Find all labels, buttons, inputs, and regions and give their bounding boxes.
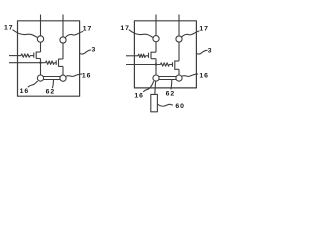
wire: Q2 drain up to pad 17b (right block) <box>178 42 180 61</box>
wire: Q2 drain up to pad 17b <box>62 43 64 59</box>
svg-text:16: 16 <box>134 93 144 100</box>
wire: node line (right block) <box>126 64 161 66</box>
leader: label 3 (left block) <box>80 50 91 54</box>
leader: label 16 right (left block) <box>66 74 82 76</box>
svg-text:17: 17 <box>199 26 209 33</box>
pad 16a (terminal circle, right block bottom left) <box>153 75 159 81</box>
leader: label 60 <box>157 104 173 106</box>
svg-text:16: 16 <box>199 73 209 80</box>
pad 17b (terminal circle, left block col 2) <box>60 37 66 43</box>
pad 16a (terminal circle, left block bottom left) <box>37 75 43 81</box>
resistor R1 (left block, gate of Q1) <box>21 54 30 57</box>
svg-text:17: 17 <box>4 24 14 31</box>
left IC package outline 3 <box>18 21 80 96</box>
transistor Q2 (right block) <box>173 60 180 70</box>
wire: Q1 source down to node <box>40 59 42 63</box>
wire: left stub to R1 (right block) <box>126 55 138 57</box>
wire: Q1 source down to node (right block) <box>155 59 157 65</box>
wire: Q2 source down to pad 16b <box>62 66 64 75</box>
svg-text:62: 62 <box>46 89 56 96</box>
resistor R2 (left block, gate of Q2) <box>46 61 55 64</box>
pad 17a (terminal circle, right block col 1) <box>153 36 159 42</box>
wire: left stub to R1 <box>9 55 21 57</box>
wire: right block top lead of pad 17a <box>155 15 157 36</box>
pad 16b (terminal circle, left block bottom right) <box>60 75 66 81</box>
leader: label 62 (right block) <box>170 80 173 90</box>
leader: label 16 bottom-left (left block) <box>28 81 38 87</box>
svg-text:17: 17 <box>120 25 130 32</box>
resistor R2 (right block) <box>161 63 170 66</box>
pad 17b (terminal circle, right block col 2) <box>176 36 182 42</box>
wire: node down to pad 16a (right block) <box>155 65 157 76</box>
wire: pad 17a to Q1 drain <box>40 42 42 52</box>
wire: R2 to Q2 gate (right block) <box>169 64 172 66</box>
wire: top lead of pad 17b <box>62 15 64 37</box>
wire: left block top lead of pad 17a <box>40 15 42 36</box>
svg-text:17: 17 <box>83 26 93 33</box>
wire: pad 17a to Q1 drain (right block) <box>155 42 157 52</box>
svg-text:60: 60 <box>175 103 185 110</box>
svg-text:16: 16 <box>82 73 92 80</box>
wire: node down to pad 16a <box>40 63 42 75</box>
leader: label 17 top-right (right block) <box>181 31 199 38</box>
wire: top lead of pad 17b (right block) <box>178 15 180 36</box>
right IC package outline 3 <box>134 21 196 88</box>
svg-text:3: 3 <box>92 47 97 54</box>
leader: label 16 bottom-left (right block) <box>143 81 153 92</box>
leader: label 17 top-left <box>13 30 38 38</box>
wire: node line (left block) <box>9 62 46 64</box>
svg-text:16: 16 <box>20 88 30 95</box>
pad 17a (terminal circle, left block col 1) <box>37 36 43 42</box>
leader: label 62 (left block) <box>52 80 53 88</box>
leader: label 17 top-left (right block) <box>129 30 153 38</box>
wire: pad 16a down to fuse 60 <box>154 81 157 94</box>
svg-text:3: 3 <box>208 48 213 55</box>
wire: Q2 source down to pad 16b (right block) <box>178 69 180 75</box>
leader: label 17 top-right <box>65 31 83 37</box>
transistor Q1 (left block) <box>30 52 41 59</box>
fuse 60 (external element box) <box>151 94 158 111</box>
fuse link 62 (double line, left block) <box>43 77 60 80</box>
leader: label 3 (right block) <box>196 50 207 54</box>
svg-text:62: 62 <box>166 90 176 97</box>
fuse link 62 (double line, right block) <box>159 77 176 80</box>
leader: label 16 right (right block) <box>182 74 198 76</box>
transistor Q1 (right block) <box>146 52 157 59</box>
transistor Q2 (left block) <box>56 59 63 67</box>
node junction dot (right block) <box>155 63 157 65</box>
node junction dot (left block) <box>39 62 41 64</box>
wire: R2 to Q2 gate <box>54 62 56 64</box>
pad 16b (terminal circle, right block bottom right) <box>176 75 182 81</box>
resistor R1 (right block) <box>138 54 146 57</box>
